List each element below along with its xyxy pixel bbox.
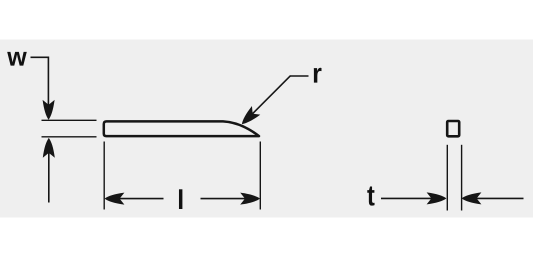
dimension w down arrowhead — [43, 100, 55, 120]
dimension t right shaft — [476, 197, 524, 199]
w extension line top — [42, 119, 97, 121]
part end view square — [447, 121, 459, 136]
l extension line right — [259, 142, 261, 210]
dimension l right arrowhead — [240, 193, 260, 205]
radius r label — [314, 68, 322, 83]
dimension w label — [7, 52, 27, 66]
dimension w up arrow shaft — [48, 152, 50, 203]
dimension t left shaft — [381, 197, 432, 199]
dimension w up arrowhead — [43, 138, 55, 158]
dimension l right shaft — [201, 198, 248, 200]
dimension w leader horizontal — [31, 56, 49, 58]
dimension t left-pointing arrowhead — [462, 192, 482, 204]
dimension l left arrowhead — [105, 193, 125, 205]
radius r leader horizontal stub — [290, 75, 309, 77]
dimension l label — [179, 189, 182, 209]
dimension w leader vertical — [47, 57, 49, 107]
part side view outline — [104, 121, 259, 136]
w extension line bottom — [42, 136, 97, 138]
radius r leader diagonal — [246, 76, 291, 121]
radius r arrowhead — [238, 106, 261, 128]
dimension t right-pointing arrowhead — [427, 192, 447, 204]
t extension line right — [461, 145, 463, 211]
t extension line left — [446, 145, 448, 211]
l extension line left — [103, 142, 105, 210]
dimension l left shaft — [118, 198, 164, 200]
gray background band — [0, 40, 533, 218]
dimension t label — [367, 186, 374, 205]
